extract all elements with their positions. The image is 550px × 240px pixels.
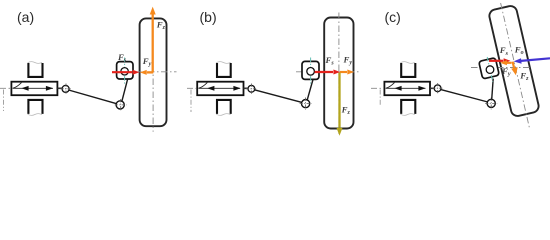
steering arm link (c) bbox=[492, 79, 494, 100]
rack arrowhead left (b) bbox=[207, 86, 214, 91]
rack ball joint (a) bbox=[62, 85, 69, 92]
rack arrowhead left (a) bbox=[21, 86, 28, 91]
tie rod (c) bbox=[441, 90, 488, 102]
top mount break line (c) bbox=[400, 62, 414, 64]
rack axis vertical stub (c) bbox=[379, 90, 381, 107]
svg-text:(c): (c) bbox=[385, 9, 401, 25]
steering arm joint (c) bbox=[487, 99, 495, 107]
top mount break line (a) bbox=[28, 62, 42, 64]
rack axis vertical stub (b) bbox=[190, 90, 192, 113]
mid joint crosshair (c) bbox=[490, 98, 492, 110]
kingpin axis teal (a) bbox=[124, 58, 126, 85]
hub axis dash-dot (c) bbox=[471, 67, 530, 69]
knuckle ball joint (c) bbox=[486, 66, 494, 74]
wheel centerline (b) bbox=[338, 13, 340, 135]
rack travel arrow line (b) bbox=[199, 87, 240, 89]
steering rack body (b) bbox=[197, 82, 243, 96]
mid joint crosshair (a) bbox=[120, 99, 122, 111]
rack axis dash-dot (b) bbox=[187, 87, 196, 89]
svg-text:(a): (a) bbox=[17, 9, 34, 25]
knuckle ball joint (a) bbox=[121, 68, 128, 75]
rack inner curve (a) bbox=[13, 83, 22, 89]
top mount bracket (c) bbox=[401, 63, 415, 77]
rack axis dash-dot (a) bbox=[0, 87, 10, 89]
svg-text:(b): (b) bbox=[200, 9, 217, 25]
force arrow Fs red (b) bbox=[315, 71, 333, 73]
knuckle (c) tilted bbox=[479, 58, 500, 79]
rack end stub (a) bbox=[58, 87, 63, 89]
steering arm joint (a) bbox=[116, 101, 124, 109]
steering arm joint (b) bbox=[302, 100, 310, 108]
wheel centerline (c) bbox=[501, 3, 530, 127]
mid joint crosshair (b) bbox=[305, 98, 307, 110]
steering rack body (c) bbox=[384, 82, 430, 96]
rack arrowhead right (b) bbox=[233, 86, 240, 91]
knuckle (b) bbox=[302, 61, 319, 79]
kingpin axis teal (c) bbox=[487, 57, 493, 82]
rack axis dash-dot (c) bbox=[371, 87, 384, 89]
bottom mount bracket (b) bbox=[217, 100, 231, 114]
force arrow Fz olive down (b) bbox=[338, 73, 340, 128]
rack end stub (b) bbox=[244, 87, 248, 89]
hub axis dash-dot (a) bbox=[135, 71, 177, 73]
knuckle (a) bbox=[117, 62, 133, 79]
bottom mount break line (c) bbox=[400, 114, 414, 116]
rack inner curve (c) bbox=[386, 83, 395, 89]
wheel tire (b) bbox=[324, 18, 353, 129]
force arrow Fy orange (b) bbox=[340, 71, 347, 73]
top mount bracket (b) bbox=[217, 63, 231, 77]
force arrow Fz orange down (c) bbox=[513, 62, 515, 70]
bottom mount break line (b) bbox=[216, 114, 230, 116]
tie rod (b) bbox=[254, 90, 302, 103]
force arrow Fs red (a) bbox=[112, 71, 132, 73]
rack axis vertical stub (a) bbox=[3, 90, 5, 112]
rack end stub (c) bbox=[430, 87, 434, 89]
bottom mount break line (a) bbox=[28, 114, 42, 116]
rack ball joint (b) bbox=[248, 85, 255, 92]
rack travel arrow line (a) bbox=[13, 87, 53, 89]
rack arrowhead left (c) bbox=[394, 86, 401, 91]
steering rack body (a) bbox=[11, 82, 57, 96]
rack ball joint crosshair (a) bbox=[65, 84, 67, 95]
tie rod (a) bbox=[69, 90, 117, 104]
force arrow Fy orange (a) bbox=[147, 71, 154, 73]
rack travel arrow line (c) bbox=[386, 87, 426, 89]
rack arrowhead right (a) bbox=[46, 86, 53, 91]
top mount break line (b) bbox=[216, 62, 230, 64]
hub axis dash-dot (b) bbox=[296, 71, 360, 73]
wheel tire (a) bbox=[140, 18, 167, 126]
kingpin axis teal (b) bbox=[310, 58, 312, 85]
steering arm link (b) bbox=[307, 80, 313, 101]
knuckle ball joint (b) bbox=[307, 68, 315, 76]
bottom mount bracket (c) bbox=[401, 100, 415, 114]
top mount bracket (a) bbox=[28, 63, 42, 77]
rack ball joint (c) bbox=[434, 85, 441, 92]
wheel tire (c) tilted bbox=[488, 5, 540, 118]
rack ball joint crosshair (c) bbox=[437, 83, 439, 94]
rack arrowhead right (c) bbox=[418, 86, 425, 91]
wheel centerline (a) bbox=[152, 14, 154, 132]
force arrow Fs red (c) bbox=[489, 60, 503, 62]
force arrow Fy orange left (c) bbox=[506, 62, 512, 64]
steering arm link (a) bbox=[122, 79, 128, 102]
force arrow blue (c) bbox=[521, 58, 550, 61]
rack inner curve (b) bbox=[198, 83, 207, 89]
force arrow Fz orange (a) bbox=[152, 14, 154, 72]
bottom mount bracket (a) bbox=[28, 100, 42, 114]
rack ball joint crosshair (b) bbox=[250, 84, 252, 95]
